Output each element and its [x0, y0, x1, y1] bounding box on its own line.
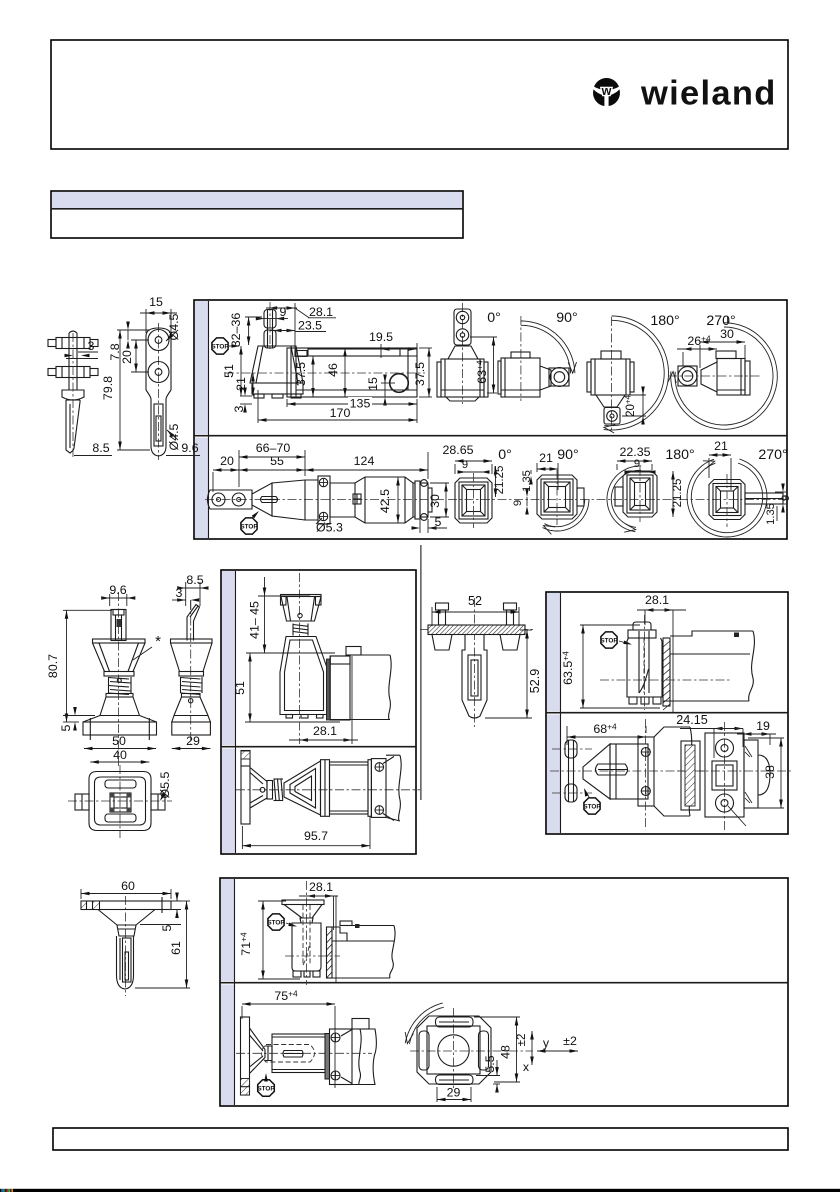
svg-text:±2: ±2	[516, 1034, 528, 1047]
svg-text:75+4: 75+4	[274, 989, 298, 1004]
svg-text:40: 40	[113, 748, 127, 762]
end cap w/ screws	[415, 480, 432, 521]
dim 5 (funnel plate)	[140, 893, 181, 932]
svg-text:48: 48	[499, 1045, 513, 1059]
fold mark line	[420, 545, 422, 800]
svg-text:STOP: STOP	[267, 919, 285, 926]
dim 9 (270)	[775, 484, 792, 513]
svg-text:29: 29	[186, 734, 200, 748]
svg-text:180°: 180°	[650, 313, 679, 329]
svg-text:42.5: 42.5	[378, 489, 392, 513]
dim 5.5	[476, 1055, 500, 1092]
arrow (p4r1)	[286, 923, 297, 929]
svg-text:52: 52	[468, 594, 482, 608]
svg-text:170: 170	[330, 406, 351, 420]
svg-text:x: x	[523, 1060, 530, 1074]
svg-text:63+4: 63+4	[475, 360, 490, 384]
svg-text:21.25: 21.25	[672, 479, 684, 508]
STOP symbol (panel3 row1)	[601, 632, 617, 648]
dim 51 (panel2)	[233, 653, 252, 722]
svg-text:180°: 180°	[665, 447, 694, 463]
axis arrows x/y ±2	[516, 1031, 578, 1074]
dim 21 (90)	[537, 451, 558, 490]
dim 37.5 left	[294, 356, 315, 397]
wall bar hatched (panel3)	[663, 638, 670, 710]
svg-text:46: 46	[326, 363, 340, 377]
rotation arc (p4r2)	[403, 1003, 444, 1044]
svg-text:71+4: 71+4	[239, 932, 254, 956]
svg-text:61: 61	[169, 941, 183, 955]
dim 32-36	[229, 313, 262, 348]
svg-text:9: 9	[462, 459, 468, 471]
svg-text:68+4: 68+4	[593, 722, 617, 737]
svg-text:30: 30	[428, 494, 442, 508]
asterisk note	[133, 633, 161, 660]
dim 22.35	[617, 445, 652, 470]
svg-text:9: 9	[634, 458, 640, 470]
dim 30 (row2)	[428, 483, 449, 517]
dim 9.6 (lower right)	[166, 441, 200, 456]
link plate with rollers	[208, 490, 253, 509]
dim 20+4	[622, 387, 646, 425]
key shaft on switch head	[264, 302, 276, 350]
svg-text:5.5: 5.5	[483, 1055, 497, 1072]
dim 135	[287, 397, 417, 424]
dim 15 (hole)	[366, 375, 395, 406]
dim 21.25 (180)	[671, 471, 684, 517]
wall bracket	[330, 647, 391, 721]
svg-text:1.35: 1.35	[765, 503, 777, 525]
dim 63.5+4	[561, 625, 661, 708]
arrow to actuator (p3r2)	[582, 787, 589, 797]
row2 centerline	[205, 499, 444, 501]
svg-text:9: 9	[512, 500, 524, 506]
end view w/ rotation (p4r2)	[410, 1008, 533, 1090]
svg-text:41– 45: 41– 45	[248, 601, 262, 639]
flex actuator in socket: ref lines	[245, 596, 340, 722]
dim 42.5	[378, 477, 400, 523]
svg-text:8.5: 8.5	[186, 573, 203, 587]
svg-text:51: 51	[233, 681, 247, 695]
dim 40	[90, 748, 149, 764]
dim 38	[748, 738, 784, 808]
svg-text:24.15: 24.15	[676, 713, 708, 727]
svg-text:29: 29	[447, 1086, 461, 1100]
rotation arc 270	[668, 316, 777, 429]
mount plate + block (p4r2)	[325, 1019, 376, 1085]
svg-text:21.25: 21.25	[494, 466, 506, 495]
dim 9 (shaft)	[256, 305, 288, 320]
svg-text:wieland: wieland	[640, 75, 777, 113]
side view: wall plate	[241, 751, 250, 825]
mounting wall bar (dark)	[326, 659, 330, 720]
dim 71+4	[239, 901, 301, 979]
dim 9 (90)	[512, 489, 529, 515]
svg-text:19: 19	[756, 719, 770, 733]
svg-text:9.6: 9.6	[181, 441, 198, 455]
STOP symbol (p4r2)	[258, 1080, 275, 1097]
dim 8.5 (blade)	[74, 441, 112, 456]
dim 5 (end cap)	[412, 515, 448, 533]
dim 61	[135, 901, 190, 988]
270 deg view	[668, 351, 762, 395]
dim 8.5 (flex)	[177, 573, 208, 606]
svg-text:STOP: STOP	[211, 343, 229, 350]
dim 9.6 (flex)	[101, 583, 135, 606]
end view 90 deg	[537, 470, 584, 525]
svg-text:26+4: 26+4	[687, 334, 711, 349]
dim 52.9	[485, 630, 542, 718]
svg-text:79.8: 79.8	[101, 376, 115, 400]
svg-text:15: 15	[366, 377, 380, 391]
dim 26+4 (270)	[677, 334, 717, 367]
svg-text:90°: 90°	[557, 447, 578, 463]
svg-text:19.5: 19.5	[369, 330, 393, 344]
mounting plate w/ screws	[318, 476, 330, 524]
svg-text:STOP: STOP	[583, 803, 601, 810]
svg-text:20+4: 20+4	[624, 394, 638, 416]
wall bar + bracket (p4r1)	[326, 921, 395, 978]
flex actuator socket body	[280, 637, 329, 719]
dim 29	[172, 734, 211, 750]
dim 37.5 right	[413, 348, 432, 397]
panel 3 frame	[546, 592, 788, 834]
flex actuator front view	[83, 592, 157, 768]
dim 50	[84, 734, 156, 750]
svg-text:5: 5	[59, 724, 73, 731]
STOP symbol (row2)	[241, 518, 257, 534]
dim 5 (base)	[59, 707, 95, 731]
dim 28.1 (panel2)	[289, 656, 358, 744]
svg-text:23.5: 23.5	[298, 319, 322, 333]
panel 4 frame	[220, 878, 788, 1106]
svg-text:22.35: 22.35	[619, 445, 650, 459]
end view (panel3 row2)	[678, 722, 792, 830]
dim 19	[737, 719, 776, 745]
dim 9 (180)	[625, 458, 656, 474]
rotation arc 90	[521, 321, 577, 373]
end views centerline	[448, 499, 786, 501]
rotation arc (270 end)	[687, 457, 767, 537]
side view: socket trapezoid	[284, 761, 321, 815]
dim 60	[81, 879, 171, 899]
svg-text:9: 9	[280, 305, 287, 319]
dim 1.35 (270)	[765, 503, 777, 525]
end view 180 deg	[615, 467, 657, 522]
svg-text:66–70: 66–70	[256, 441, 291, 455]
arrow into actuator (panel3)	[619, 641, 632, 647]
flange + hex block (panel3 row2)	[638, 719, 692, 829]
dim 79.8	[101, 330, 150, 450]
switch head trapezoid (side view)	[250, 346, 303, 398]
flex actuator head	[281, 573, 322, 744]
dim 15 (hole plate width)	[140, 295, 177, 333]
svg-text:28.65: 28.65	[442, 443, 473, 457]
svg-text:80.7: 80.7	[46, 654, 60, 678]
dim 68+4	[567, 722, 646, 746]
STOP symbol (panel3 row2)	[584, 798, 600, 814]
svg-text:±2: ±2	[563, 1034, 577, 1048]
STOP symbol (panel4 row1)	[268, 914, 284, 930]
svg-text:0°: 0°	[487, 310, 501, 326]
dim 21.25 (0deg)	[494, 466, 506, 497]
svg-text:9: 9	[780, 495, 792, 501]
footer box	[53, 1128, 788, 1150]
switch barrel body	[330, 477, 415, 523]
bottom print bar	[13, 1189, 840, 1192]
svg-text:5: 5	[435, 515, 442, 529]
90 deg view	[498, 316, 569, 401]
svg-text:y: y	[543, 1036, 550, 1050]
svg-text:STOP: STOP	[257, 1085, 275, 1092]
svg-text:3: 3	[176, 586, 183, 600]
dim 48	[474, 1017, 520, 1082]
flex actuator bottom view	[68, 765, 172, 838]
dim 28.1 (row1)	[266, 303, 336, 352]
svg-text:51: 51	[222, 364, 236, 378]
dim 80.7	[46, 610, 112, 722]
rotation arc 180	[603, 316, 668, 433]
dim 9 (0deg)	[458, 459, 490, 474]
svg-text:15: 15	[149, 295, 163, 309]
svg-text:STOP: STOP	[600, 637, 618, 644]
flex actuator side view	[171, 600, 213, 745]
dim 23.5	[270, 319, 326, 333]
dim 7.8	[108, 322, 150, 361]
wieland logo mark	[593, 78, 620, 106]
svg-text:37.5: 37.5	[413, 362, 427, 386]
dim Ø4.5 (top)	[165, 313, 181, 342]
switch body (side view)	[225, 348, 425, 397]
dim Ø5.5	[158, 771, 172, 801]
title block header row (lavender)	[52, 192, 462, 209]
dim 95.7	[242, 816, 370, 849]
funnel actuator standalone view	[81, 896, 171, 996]
actuator insert arrow	[229, 344, 240, 348]
arrow up (p4r2)	[264, 1073, 268, 1082]
side view: body+plate+wall	[321, 755, 402, 821]
dim 124	[305, 452, 428, 479]
dim 63+4	[470, 337, 497, 393]
svg-text:50: 50	[112, 734, 126, 748]
end view 270 deg	[709, 474, 783, 527]
actuator body (panel3 row2)	[550, 744, 705, 799]
dim 3 (key plate thickness)	[65, 339, 99, 359]
svg-text:20: 20	[120, 350, 134, 364]
dim Ø4.5 (bottom)	[166, 423, 181, 450]
dim 21 (270)	[709, 439, 731, 490]
rotation arc (90 end)	[542, 499, 589, 534]
dim 41-45	[248, 577, 267, 653]
header frame box	[51, 40, 788, 149]
end view 0 deg	[455, 473, 492, 528]
svg-text:8.5: 8.5	[92, 441, 109, 455]
actuator w/ blade (panel3 row1)	[627, 615, 662, 710]
STOP symbol (row1 side view)	[212, 338, 228, 354]
svg-text:30: 30	[720, 327, 734, 341]
svg-text:60: 60	[121, 879, 135, 893]
svg-text:3: 3	[88, 339, 95, 353]
panel 2 frame	[221, 570, 416, 854]
svg-text:38: 38	[763, 765, 777, 779]
panel 1 row strips	[195, 301, 208, 434]
extension line right (panel4)	[335, 896, 337, 982]
svg-text:STOP: STOP	[240, 523, 258, 530]
rotation arc (180 end)	[607, 466, 641, 534]
svg-text:*: *	[155, 633, 161, 650]
svg-text:135: 135	[350, 397, 371, 411]
dim 30 (270)	[700, 327, 745, 368]
dim 29 (p4r2)	[437, 1086, 471, 1103]
svg-text:28.1: 28.1	[645, 593, 669, 607]
svg-text:20: 20	[220, 454, 234, 468]
dim 20	[120, 340, 149, 372]
wall bracket (panel3 row1)	[600, 631, 754, 701]
dim 21	[234, 373, 255, 396]
funnel actuator side (p4r2)	[236, 1028, 372, 1074]
actuator key front view (right)	[146, 323, 171, 460]
svg-text:270°: 270°	[758, 447, 787, 463]
svg-text:95.7: 95.7	[304, 829, 328, 843]
svg-text:28.1: 28.1	[309, 305, 333, 319]
dim 24.15	[676, 713, 743, 758]
dim Ø5.3	[316, 518, 343, 535]
clamp plate drawing	[420, 598, 535, 727]
dim 75+4	[242, 989, 335, 1089]
svg-text:w: w	[601, 84, 612, 98]
svg-text:28.1: 28.1	[313, 724, 337, 738]
svg-text:63.5+4: 63.5+4	[561, 651, 576, 685]
dim 28.65	[442, 443, 492, 474]
dim 3 (foot)	[232, 388, 252, 413]
dim 55	[239, 454, 305, 472]
0 deg view: lever plate	[437, 303, 488, 404]
svg-text:21: 21	[714, 439, 728, 453]
svg-text:0°: 0°	[498, 447, 512, 463]
svg-text:90°: 90°	[556, 310, 577, 326]
svg-text:3: 3	[232, 405, 246, 412]
dim 46	[326, 348, 347, 397]
roller plate (panel3 row2)	[552, 740, 592, 802]
dim 28.1 (panel4)	[299, 880, 338, 930]
dim 51	[222, 346, 243, 396]
dim 66-70	[239, 441, 305, 487]
dim 19.5	[369, 330, 417, 358]
actuator housing cone	[252, 480, 318, 520]
180 deg view	[587, 317, 634, 431]
dim 28.1 (panel3)	[637, 593, 686, 712]
svg-text:55: 55	[270, 454, 284, 468]
svg-text:5: 5	[160, 924, 174, 931]
svg-text:28.1: 28.1	[309, 880, 333, 894]
side view: head+spring	[236, 768, 420, 809]
svg-text:124: 124	[354, 454, 375, 468]
panel 1 frame	[194, 300, 787, 539]
funnel actuator front (p4r1)	[282, 881, 340, 985]
svg-text:9.6: 9.6	[109, 583, 126, 597]
arrow into housing	[252, 510, 261, 519]
dim 20 (row2)	[213, 454, 239, 492]
svg-text:21: 21	[539, 451, 553, 465]
wall plate (p4r2)	[241, 1017, 250, 1095]
dim 52	[432, 594, 519, 626]
svg-text:32–36: 32–36	[229, 313, 243, 348]
svg-text:52.9: 52.9	[528, 669, 542, 694]
title block box	[51, 191, 463, 238]
svg-text:37.5: 37.5	[294, 362, 308, 386]
dim 1.35 (90)	[521, 470, 533, 492]
svg-text:Ø5.3: Ø5.3	[316, 521, 343, 535]
dim 3 (flex)	[172, 586, 199, 610]
dim 170	[258, 390, 417, 423]
actuator key side view (left)	[48, 331, 98, 457]
